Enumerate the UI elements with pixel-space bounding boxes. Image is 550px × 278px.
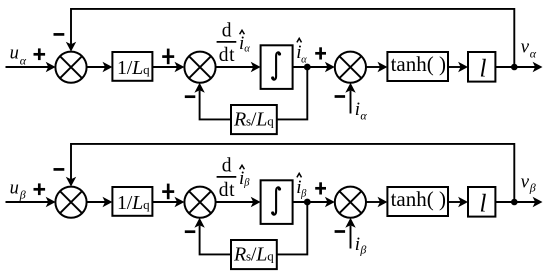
block integrator	[261, 180, 293, 224]
junction node after integrator	[304, 199, 311, 206]
svg-text:β: β	[243, 178, 250, 189]
alpha channel observer row	[6, 9, 543, 134]
wire S3 to tanh block	[366, 197, 387, 207]
svg-text:tanh( ): tanh( )	[391, 52, 446, 76]
label i_beta_hat estimated current	[296, 173, 307, 199]
minus sign feedback into summing junction 1	[54, 168, 65, 171]
block l gain	[468, 52, 495, 82]
wire node to Rs/Lq block	[277, 202, 308, 254]
svg-text:α: α	[530, 47, 537, 61]
block tanh	[387, 187, 448, 216]
wire integrator to S3	[293, 62, 335, 72]
block 1/Lq	[112, 52, 152, 81]
summing junction S1	[55, 187, 86, 218]
svg-text:d: d	[222, 20, 232, 41]
junction node output	[511, 199, 518, 206]
label i_beta_hat derivative	[239, 165, 250, 189]
plus sign at summing junction 3	[315, 182, 326, 194]
wire node to Rs/Lq block	[277, 67, 308, 119]
beta channel observer row	[6, 144, 543, 269]
block integrator	[261, 45, 293, 89]
block l gain	[468, 187, 495, 217]
junction node output	[511, 64, 518, 71]
wire block 1/Lq to S2	[152, 197, 184, 207]
svg-text:dt: dt	[219, 45, 235, 66]
node v_alpha output label	[521, 36, 537, 60]
minus sign feedback into summing junction 1	[54, 33, 65, 36]
wire S1 to block 1/Lq	[87, 197, 113, 207]
wire outer feedback loop	[66, 9, 515, 67]
plus sign at summing junction 2	[162, 184, 174, 200]
svg-text:l: l	[480, 190, 487, 217]
minus sign at S2 feedback	[185, 230, 196, 233]
svg-text:dt: dt	[219, 180, 235, 201]
wire input u_beta	[6, 197, 56, 207]
svg-text:1/Lq: 1/Lq	[117, 57, 150, 79]
wire outer feedback loop	[66, 144, 515, 202]
node u_alpha input label	[10, 44, 27, 68]
svg-text:u: u	[10, 44, 19, 64]
plus sign at summing junction 1	[34, 183, 46, 195]
wire Rs/Lq to S2 minus input	[194, 83, 231, 120]
wire output v_beta	[495, 197, 542, 207]
svg-text:β: β	[300, 188, 307, 199]
wire S2 to integrator	[216, 197, 261, 207]
svg-text:β: β	[359, 243, 366, 257]
svg-text:i: i	[355, 99, 360, 120]
node v_beta output label	[521, 171, 536, 194]
summing junction S3	[335, 187, 366, 218]
wire integrator to S3	[293, 197, 335, 207]
wire S2 to integrator	[216, 62, 261, 72]
svg-text:tanh( ): tanh( )	[391, 187, 446, 211]
label d/dt fraction	[217, 155, 237, 201]
wire S3 to tanh block	[366, 62, 387, 72]
block 1/Lq	[112, 187, 152, 216]
svg-text:α: α	[20, 53, 27, 67]
label i_alpha_hat derivative	[239, 30, 250, 54]
svg-text:d: d	[222, 155, 232, 176]
summing junction S1	[55, 52, 86, 83]
block tanh	[387, 52, 448, 81]
minus sign at S2 feedback	[185, 95, 196, 98]
label d/dt fraction	[217, 20, 237, 66]
svg-text:α: α	[244, 44, 250, 55]
wire i_beta measured current input	[345, 218, 355, 249]
minus sign at S3 input	[335, 95, 346, 98]
wire tanh to block l	[448, 197, 468, 207]
svg-text:i: i	[355, 234, 360, 255]
svg-text:Rs/Lq: Rs/Lq	[233, 243, 274, 265]
label i_beta measured current	[355, 234, 367, 257]
summing junction S3	[335, 52, 366, 83]
plus sign at summing junction 3	[315, 47, 326, 59]
junction node after integrator	[304, 64, 311, 71]
summing junction S2	[184, 187, 215, 218]
plus sign at summing junction 2	[162, 49, 174, 65]
svg-text:β: β	[529, 181, 536, 195]
plus sign at summing junction 1	[34, 48, 46, 60]
wire input u_alpha	[6, 62, 56, 72]
svg-text:α: α	[301, 54, 307, 65]
svg-text:1/Lq: 1/Lq	[117, 192, 150, 214]
wire output v_alpha	[495, 62, 542, 72]
wire block 1/Lq to S2	[152, 62, 184, 72]
svg-text:α: α	[360, 109, 367, 123]
minus sign at S3 input	[335, 230, 346, 233]
block Rs/Lq	[231, 105, 277, 134]
summing junction S2	[184, 52, 215, 83]
label i_alpha measured current	[355, 99, 368, 123]
wire tanh to block l	[448, 62, 468, 72]
svg-text:Rs/Lq: Rs/Lq	[233, 108, 274, 130]
svg-text:v: v	[521, 36, 530, 57]
wire Rs/Lq to S2 minus input	[194, 218, 231, 255]
label i_alpha_hat estimated current	[296, 38, 307, 65]
svg-text:β: β	[19, 187, 26, 201]
svg-text:v: v	[521, 171, 530, 192]
wire S1 to block 1/Lq	[87, 62, 113, 72]
svg-text:l: l	[480, 55, 487, 82]
svg-text:u: u	[10, 179, 19, 199]
wire i_alpha measured current input	[345, 83, 355, 114]
node u_beta input label	[10, 179, 26, 202]
block Rs/Lq	[231, 240, 277, 269]
